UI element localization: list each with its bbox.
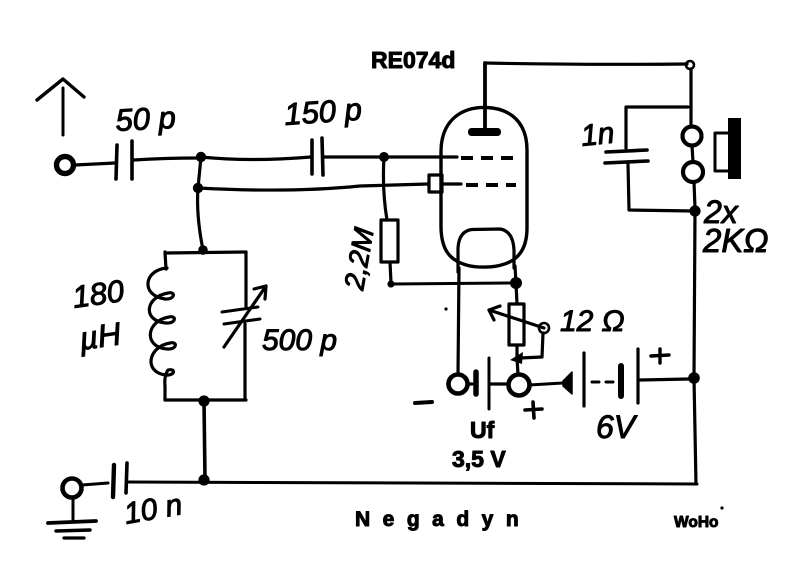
node D: [689, 205, 700, 216]
phone terminal 1: [683, 127, 702, 146]
label plus 6V: [651, 349, 669, 363]
svg-text:50 p: 50 p: [115, 100, 177, 138]
svg-text:3,5 V: 3,5 V: [452, 446, 506, 472]
grid dashed line 2: [442, 182, 461, 185]
svg-text:2,2M: 2,2M: [338, 225, 380, 293]
tube pin box: [429, 175, 442, 192]
wire: [198, 157, 203, 250]
rheostat R2 12ohm: [489, 304, 549, 374]
svg-text:1n: 1n: [579, 117, 616, 153]
tank circuit top wire: [198, 245, 208, 255]
tank rectangle bottom: [165, 398, 246, 401]
node G: [510, 277, 522, 289]
tank rectangle left lower stub: [163, 386, 166, 400]
svg-text:500 p: 500 p: [262, 324, 337, 357]
label plus: [525, 402, 542, 418]
tube RE074d envelope: [441, 107, 527, 267]
wire right rail middle: [694, 211, 695, 377]
node B: [193, 183, 203, 193]
wire: [529, 383, 563, 385]
capacitor C5 10n: [113, 463, 127, 497]
filament lead left: [458, 268, 459, 374]
svg-text:Uf: Uf: [470, 417, 495, 443]
inductor L1 180uH: [148, 268, 175, 386]
battery Uf: [467, 358, 508, 409]
node A: [196, 152, 206, 162]
wire: [201, 157, 311, 160]
terminal Uf minus: [449, 375, 468, 394]
svg-text:2KΩ: 2KΩ: [702, 222, 768, 259]
wire: [391, 283, 514, 284]
wire: [694, 182, 695, 208]
anode lead: [483, 63, 487, 128]
terminal antenna input: [57, 157, 74, 174]
label minus: [415, 402, 432, 403]
variable capacitor C4 500p: [222, 286, 266, 347]
node C: [379, 152, 389, 162]
anode plate: [468, 128, 501, 136]
wire: [516, 283, 517, 304]
svg-text:10 n: 10 n: [121, 488, 184, 531]
svg-text:RE074d: RE074d: [371, 47, 455, 73]
svg-text:6V: 6V: [596, 409, 638, 445]
bottom bus wire: [128, 482, 697, 484]
node E battery junction: [688, 372, 700, 384]
capacitor C3 1n: [605, 150, 648, 163]
wire tank to bus: [204, 401, 205, 479]
tank rectangle right upper: [244, 252, 247, 306]
wire: [324, 155, 384, 158]
capacitor C2 150p: [312, 138, 323, 175]
speck: [444, 307, 447, 310]
node H tank bottom: [198, 395, 209, 406]
svg-text:Negadyn: Negadyn: [355, 508, 531, 531]
battery 6V: [563, 349, 689, 406]
corner dot: [686, 61, 694, 69]
svg-text:180: 180: [70, 273, 126, 315]
node F: [387, 280, 394, 287]
tank rectangle top: [165, 252, 246, 253]
wire: [75, 163, 115, 165]
node I bus junction: [198, 474, 209, 485]
tank rectangle right lower: [243, 324, 246, 400]
svg-text:µH: µH: [76, 315, 124, 357]
capacitor C1 50p: [116, 141, 132, 179]
wire right rail upper: [689, 69, 692, 126]
terminal Uf plus: [509, 375, 530, 396]
phone terminal 2: [683, 162, 703, 182]
resistor R1 2.2M: [381, 157, 398, 283]
speck: [720, 506, 723, 509]
ground symbol: [48, 498, 96, 538]
wire: [82, 483, 108, 485]
svg-text:WoHo: WoHo: [674, 514, 718, 531]
svg-text:150 p: 150 p: [283, 92, 363, 132]
grid dashed line 1: [461, 156, 514, 160]
wire: [198, 184, 428, 190]
wire grid1 into tube: [384, 155, 457, 158]
wire anode to top-right: [485, 63, 687, 64]
filament lead right / wire: [515, 266, 516, 283]
antenna: [37, 79, 84, 135]
wire right rail lower: [694, 378, 696, 484]
ground terminal: [63, 479, 82, 498]
wire: [134, 158, 198, 160]
svg-text:12 Ω: 12 Ω: [560, 305, 625, 338]
tank rectangle left stub: [165, 252, 166, 269]
wire: [692, 146, 693, 162]
wire: [628, 164, 693, 211]
wire top bracket: [626, 107, 688, 148]
tube stem arch: [458, 229, 514, 272]
headphone symbol: [715, 118, 741, 179]
